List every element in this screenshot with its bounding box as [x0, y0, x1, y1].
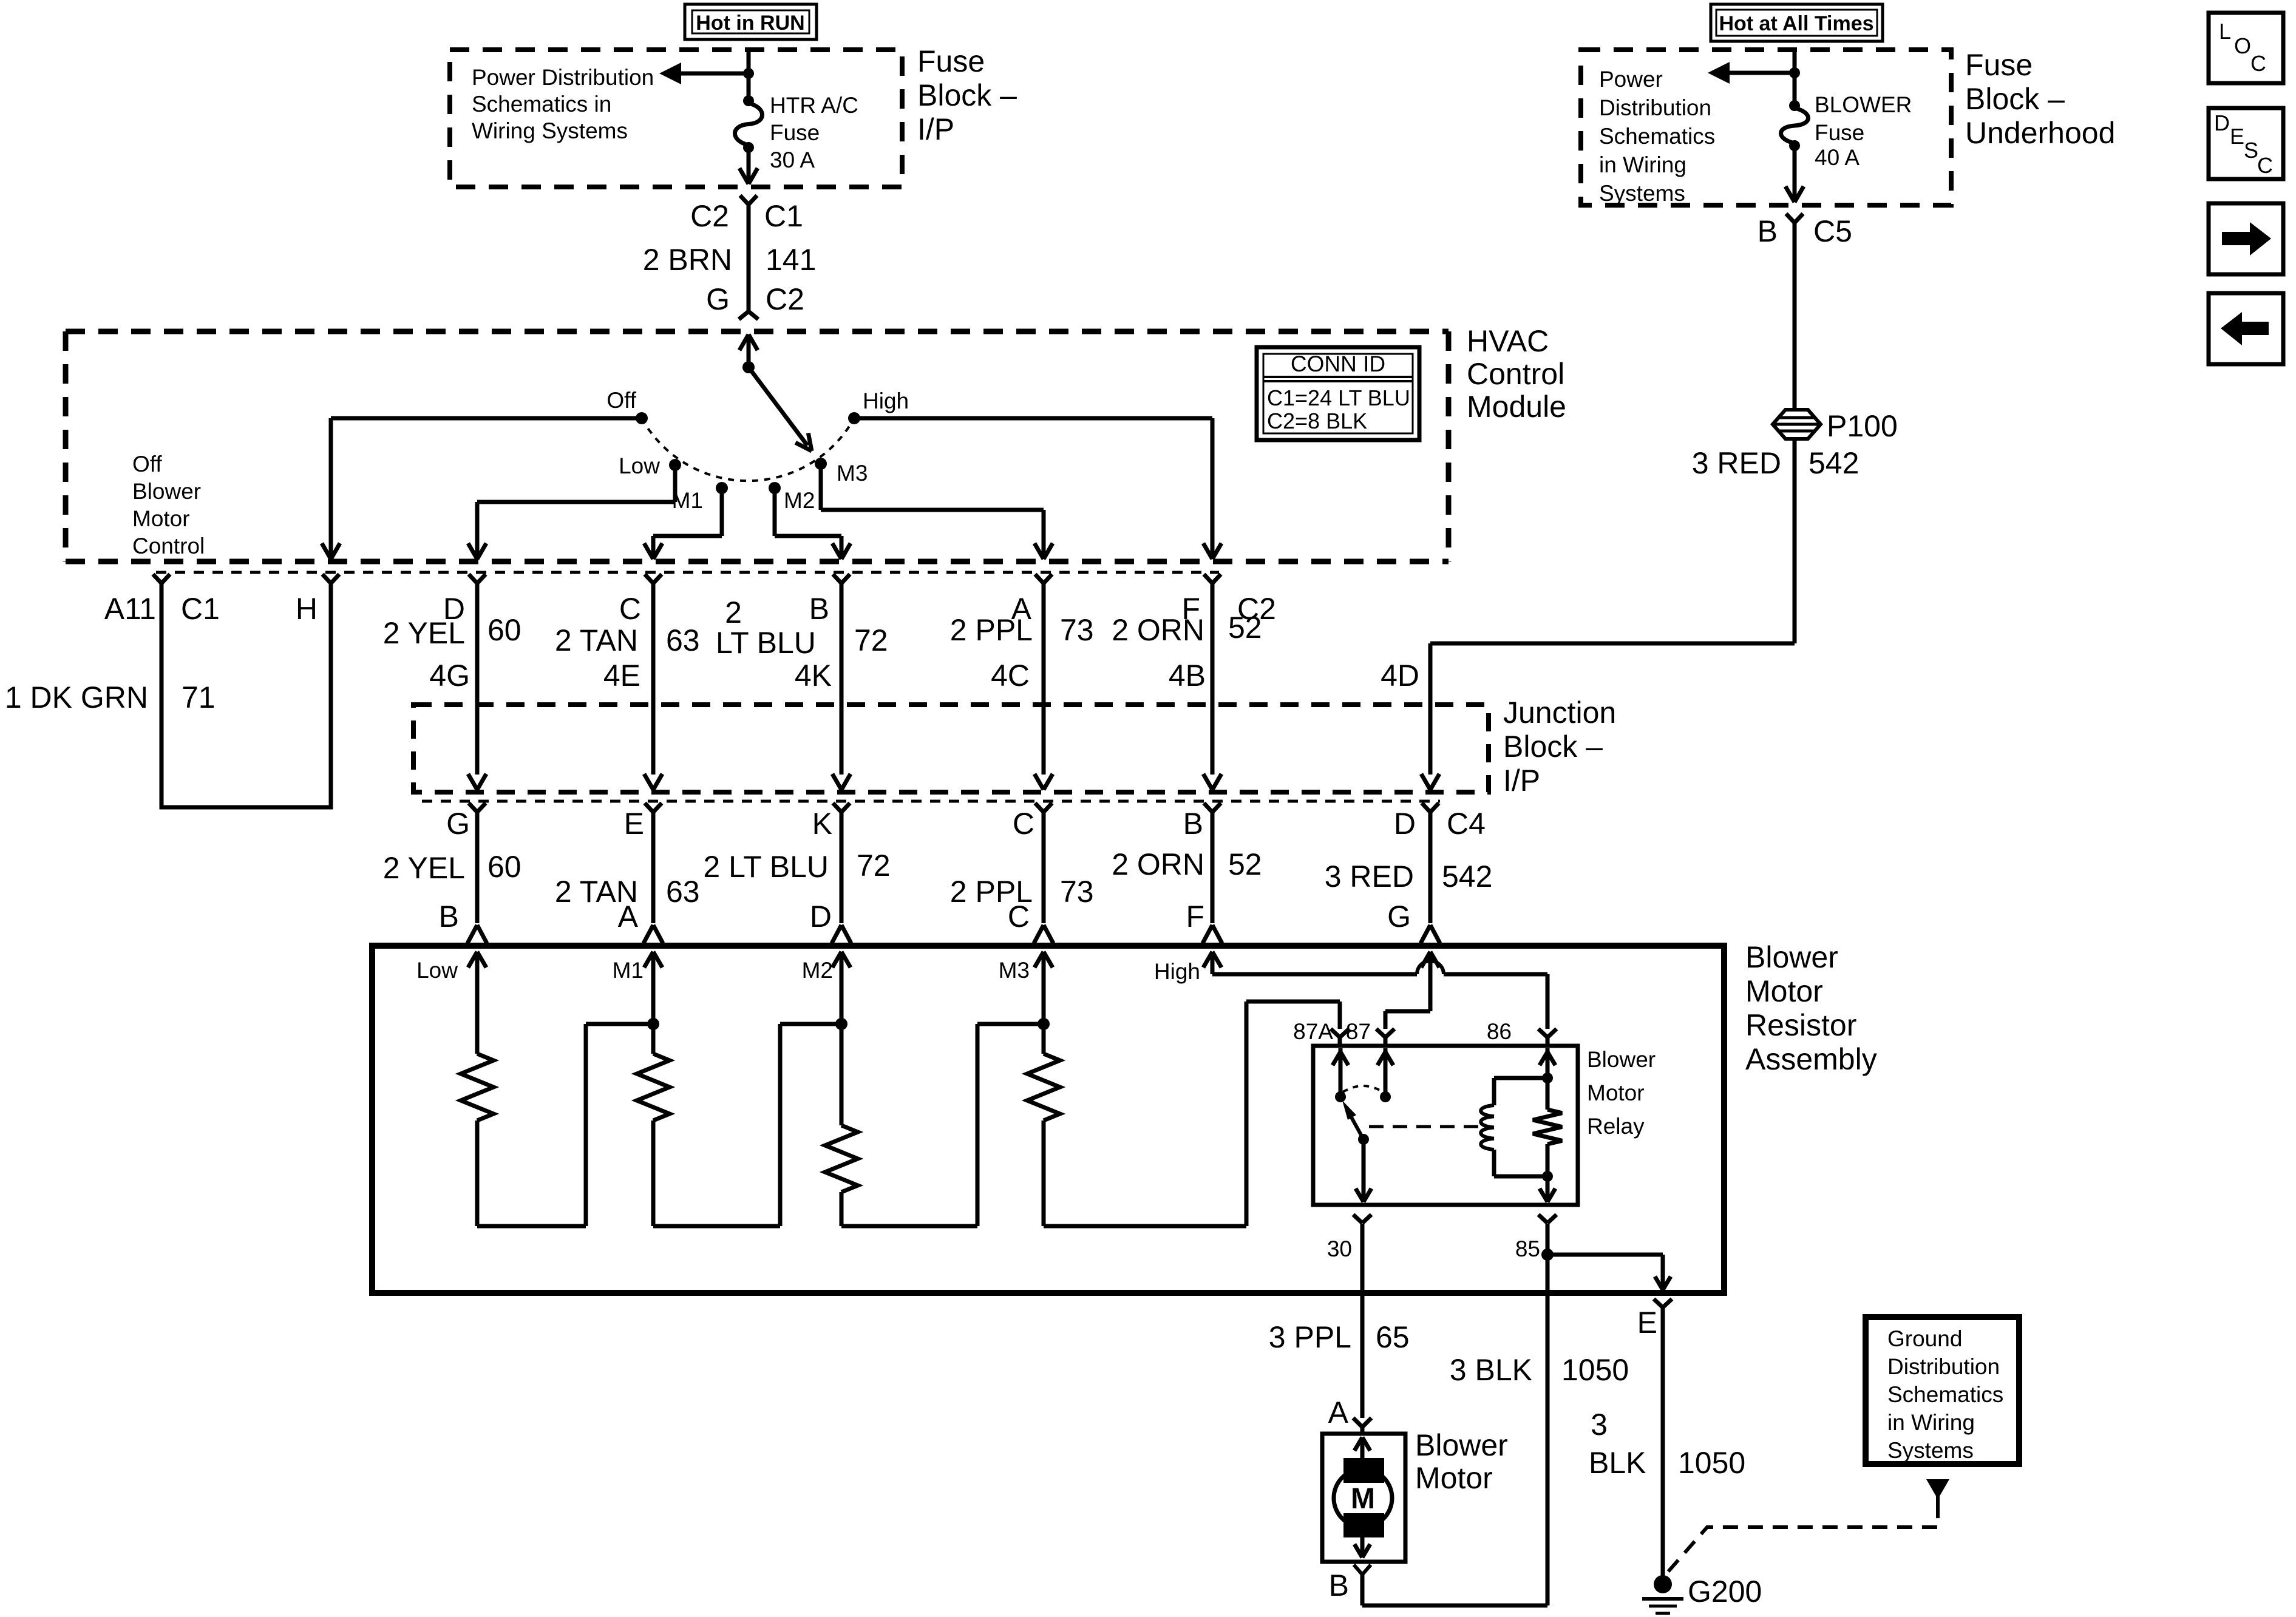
svg-text:Distribution: Distribution [1599, 95, 1711, 120]
svg-text:1050: 1050 [1561, 1353, 1629, 1387]
svg-text:3 RED: 3 RED [1325, 859, 1414, 893]
svg-text:M: M [1351, 1483, 1375, 1515]
svg-text:HTR A/C: HTR A/C [770, 93, 858, 118]
svg-text:542: 542 [1442, 859, 1492, 893]
svg-text:LT BLU: LT BLU [716, 626, 816, 660]
svg-text:B: B [1758, 214, 1778, 248]
svg-text:Ground: Ground [1887, 1326, 1962, 1351]
svg-text:Blower: Blower [1587, 1047, 1656, 1072]
svg-text:C2=8 BLK: C2=8 BLK [1267, 408, 1367, 433]
svg-text:G200: G200 [1688, 1575, 1762, 1609]
svg-text:1050: 1050 [1678, 1446, 1745, 1480]
svg-text:BLK: BLK [1589, 1446, 1646, 1480]
svg-text:L: L [2219, 19, 2231, 44]
svg-text:I/P: I/P [1503, 764, 1540, 798]
svg-text:Resistor: Resistor [1745, 1008, 1856, 1042]
svg-text:H: H [296, 592, 318, 626]
svg-text:2 LT BLU: 2 LT BLU [703, 850, 829, 884]
svg-text:Fuse: Fuse [1965, 48, 2033, 82]
svg-text:Block –: Block – [1965, 82, 2065, 116]
svg-text:BLOWER: BLOWER [1815, 92, 1912, 117]
svg-text:B: B [1329, 1568, 1349, 1602]
svg-text:2 PPL: 2 PPL [950, 613, 1033, 647]
svg-text:Blower: Blower [132, 479, 201, 504]
svg-text:M3: M3 [837, 461, 868, 486]
svg-text:Control: Control [132, 534, 205, 558]
svg-text:B: B [809, 592, 829, 626]
svg-text:Low: Low [416, 958, 458, 983]
svg-text:F: F [1186, 900, 1204, 934]
svg-text:4C: 4C [991, 659, 1030, 693]
svg-text:30: 30 [1327, 1236, 1352, 1261]
svg-text:HVAC: HVAC [1467, 324, 1549, 358]
svg-text:Off: Off [132, 452, 162, 476]
svg-text:Block –: Block – [1503, 730, 1603, 764]
svg-text:Power: Power [1599, 67, 1663, 92]
svg-text:2 YEL: 2 YEL [383, 851, 465, 885]
svg-text:High: High [1154, 959, 1200, 984]
svg-text:Fuse: Fuse [917, 44, 985, 78]
svg-text:I/P: I/P [917, 112, 954, 146]
svg-text:M2: M2 [802, 958, 833, 983]
svg-text:Block –: Block – [917, 78, 1017, 112]
svg-text:CONN ID: CONN ID [1291, 351, 1385, 376]
svg-text:2 ORN: 2 ORN [1112, 847, 1204, 881]
svg-text:G: G [706, 282, 730, 316]
svg-text:G: G [446, 807, 470, 841]
svg-text:A: A [1328, 1395, 1349, 1429]
svg-text:1 DK GRN: 1 DK GRN [5, 680, 148, 714]
svg-text:Schematics in: Schematics in [472, 92, 611, 117]
svg-text:Schematics: Schematics [1887, 1382, 2003, 1407]
svg-text:72: 72 [854, 623, 888, 657]
svg-text:4B: 4B [1169, 659, 1206, 693]
svg-text:3: 3 [1591, 1408, 1608, 1442]
svg-text:73: 73 [1060, 613, 1094, 647]
svg-text:60: 60 [487, 850, 521, 884]
svg-text:S: S [2244, 138, 2258, 163]
svg-text:3 PPL: 3 PPL [1269, 1320, 1351, 1354]
svg-text:87A: 87A [1293, 1019, 1333, 1044]
svg-text:Off: Off [606, 388, 636, 413]
svg-text:Blower: Blower [1745, 940, 1838, 974]
svg-text:Blower: Blower [1415, 1428, 1508, 1462]
svg-text:Wiring Systems: Wiring Systems [472, 118, 628, 143]
svg-text:3 BLK: 3 BLK [1450, 1353, 1532, 1387]
svg-text:Assembly: Assembly [1745, 1042, 1877, 1076]
svg-text:65: 65 [1376, 1320, 1410, 1354]
svg-text:B: B [439, 900, 459, 934]
svg-text:Motor: Motor [132, 506, 190, 531]
svg-text:86: 86 [1487, 1019, 1512, 1044]
svg-text:C: C [2257, 153, 2273, 178]
svg-text:71: 71 [182, 680, 216, 714]
svg-text:Motor: Motor [1745, 974, 1823, 1008]
svg-text:73: 73 [1060, 875, 1094, 909]
svg-text:Relay: Relay [1587, 1114, 1645, 1139]
svg-text:Power Distribution: Power Distribution [472, 65, 654, 90]
svg-text:63: 63 [666, 623, 700, 657]
svg-text:C1: C1 [181, 592, 220, 626]
svg-text:C: C [1008, 900, 1030, 934]
svg-text:Hot at All Times: Hot at All Times [1719, 12, 1873, 35]
svg-text:2: 2 [725, 595, 742, 629]
svg-text:Hot in RUN: Hot in RUN [696, 12, 804, 35]
svg-text:B: B [1183, 807, 1203, 841]
svg-text:C: C [1013, 807, 1034, 841]
svg-text:542: 542 [1809, 446, 1859, 480]
svg-text:Systems: Systems [1599, 181, 1685, 206]
svg-text:Module: Module [1467, 390, 1566, 424]
svg-text:30 A: 30 A [770, 147, 815, 172]
svg-text:D: D [1394, 807, 1416, 841]
svg-text:C4: C4 [1447, 807, 1486, 841]
svg-text:D: D [2214, 110, 2230, 135]
svg-text:3 RED: 3 RED [1692, 446, 1781, 480]
svg-text:C: C [619, 592, 641, 626]
svg-text:E: E [1637, 1306, 1657, 1340]
svg-text:C5: C5 [1813, 214, 1852, 248]
svg-text:2 TAN: 2 TAN [555, 623, 638, 657]
svg-text:Junction: Junction [1503, 696, 1616, 730]
svg-text:A: A [618, 900, 639, 934]
svg-text:in Wiring: in Wiring [1599, 152, 1686, 177]
svg-text:63: 63 [666, 875, 700, 909]
svg-text:40 A: 40 A [1815, 145, 1860, 170]
svg-text:Control: Control [1467, 357, 1564, 391]
svg-text:C: C [2250, 51, 2266, 76]
svg-text:72: 72 [857, 849, 891, 883]
svg-text:C2: C2 [766, 282, 804, 316]
svg-text:G: G [1387, 900, 1411, 934]
svg-text:P100: P100 [1827, 409, 1898, 443]
svg-text:60: 60 [487, 613, 521, 647]
svg-text:2 BRN: 2 BRN [643, 243, 732, 277]
svg-text:M1: M1 [613, 958, 644, 983]
svg-text:M2: M2 [784, 488, 815, 513]
svg-text:A11: A11 [104, 592, 156, 626]
svg-text:Systems: Systems [1887, 1438, 1974, 1463]
svg-text:2 ORN: 2 ORN [1112, 613, 1204, 647]
svg-text:M3: M3 [999, 958, 1030, 983]
svg-text:Schematics: Schematics [1599, 124, 1715, 149]
svg-text:4D: 4D [1381, 659, 1419, 693]
svg-text:C2: C2 [690, 199, 729, 233]
svg-text:4K: 4K [795, 659, 832, 693]
svg-text:Underhood: Underhood [1965, 116, 2115, 150]
svg-text:52: 52 [1228, 611, 1262, 645]
svg-text:87: 87 [1346, 1019, 1371, 1044]
svg-text:Motor: Motor [1587, 1080, 1645, 1105]
svg-text:4G: 4G [429, 659, 470, 693]
svg-text:2 YEL: 2 YEL [383, 616, 465, 650]
svg-text:Motor: Motor [1415, 1461, 1493, 1495]
svg-text:Fuse: Fuse [770, 120, 820, 145]
svg-text:Low: Low [619, 453, 660, 478]
svg-text:E: E [2230, 124, 2244, 149]
svg-text:K: K [812, 807, 832, 841]
svg-text:C1=24 LT BLU: C1=24 LT BLU [1267, 385, 1410, 410]
svg-text:O: O [2234, 33, 2251, 58]
svg-text:in Wiring: in Wiring [1887, 1410, 1975, 1435]
svg-text:4E: 4E [603, 659, 640, 693]
svg-text:C1: C1 [764, 199, 803, 233]
svg-text:E: E [624, 807, 644, 841]
svg-text:Fuse: Fuse [1815, 120, 1864, 145]
svg-text:Distribution: Distribution [1887, 1354, 2000, 1379]
svg-text:141: 141 [766, 243, 816, 277]
svg-text:52: 52 [1228, 847, 1262, 881]
svg-text:High: High [863, 388, 909, 413]
svg-text:85: 85 [1515, 1236, 1540, 1261]
svg-text:D: D [810, 900, 832, 934]
